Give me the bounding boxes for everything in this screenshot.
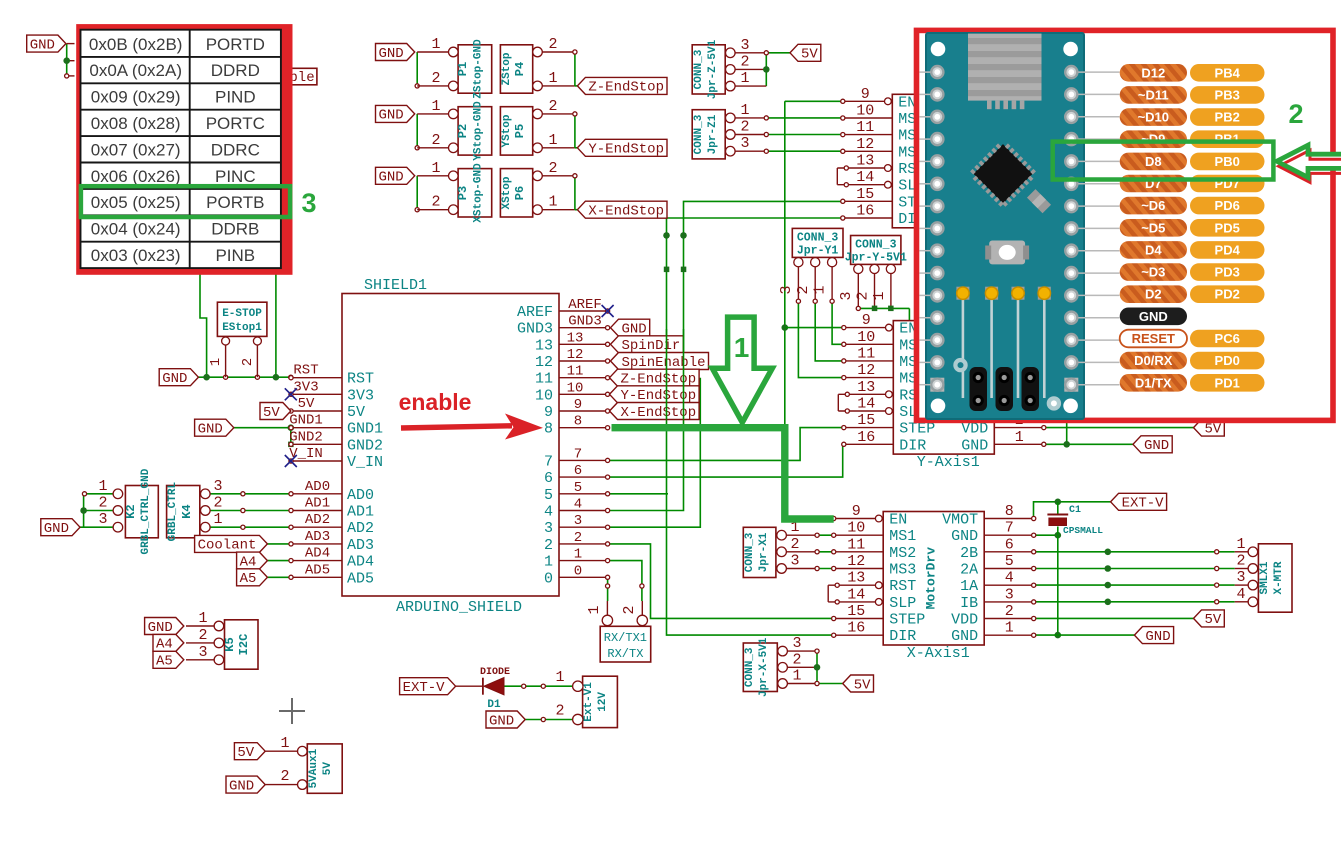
- pin RST SHIELD1 left: [291, 377, 342, 379]
- pin 11 SHIELD1 right: [559, 377, 608, 379]
- svg-text:0x0B (0x2B): 0x0B (0x2B): [89, 35, 183, 54]
- inset pill ~D9: [1120, 130, 1187, 148]
- pin 10 X-Axis1 MS1: [834, 534, 884, 536]
- connector P1: [458, 45, 492, 93]
- inset lead line left: [920, 71, 931, 73]
- svg-text:0x08 (0x28): 0x08 (0x28): [91, 114, 181, 133]
- no-connect 3V3: [285, 388, 297, 400]
- svg-text:6: 6: [1005, 536, 1014, 553]
- pin 11 X-Axis1 MS2: [834, 551, 884, 553]
- svg-text:A5: A5: [156, 654, 173, 670]
- pin 3 SHIELD1 right: [559, 526, 608, 528]
- pin 15 Y-Axis1 STEP: [844, 427, 894, 429]
- inset reset button: [989, 241, 1025, 265]
- pins P-left: [449, 171, 459, 181]
- component SHIELD1 ARDUINO_SHIELD: [342, 294, 559, 597]
- pin 1 Y-Axis1 GND: [994, 443, 1044, 445]
- pin 2 Z-Axis1 VDD: [993, 200, 1043, 202]
- svg-text:X-EndStop: X-EndStop: [588, 204, 664, 220]
- sheet origin cross: [279, 710, 305, 712]
- svg-text:D1/TX: D1/TX: [1135, 375, 1172, 390]
- svg-text:C1: C1: [1069, 505, 1081, 516]
- svg-text:Jpr-Z-5V1: Jpr-Z-5V1: [707, 39, 719, 99]
- global label A5: [237, 569, 268, 586]
- svg-text:IB: IB: [960, 595, 978, 612]
- svg-text:2: 2: [548, 160, 557, 177]
- register table red frame: [76, 24, 292, 275]
- svg-text:5V: 5V: [237, 745, 254, 761]
- svg-text:2: 2: [213, 495, 222, 512]
- svg-text:PD2: PD2: [1215, 287, 1240, 302]
- power flag GND at K5: [145, 618, 184, 635]
- svg-text:2: 2: [740, 53, 749, 70]
- wire K4 pin2 to AD1: [210, 510, 292, 512]
- inset usb connector: [968, 34, 1042, 101]
- wire Jpr-Y1 pin3 to MS3: [797, 266, 799, 301]
- svg-text:16: 16: [856, 203, 874, 220]
- svg-text:11: 11: [847, 536, 865, 553]
- inset icsp headers: [970, 367, 988, 411]
- pin 2 RX/TX1: [637, 615, 647, 625]
- svg-text:PB4: PB4: [1215, 65, 1241, 80]
- inset lead line: [1078, 384, 1119, 386]
- pin 16 Z-Axis1 DIR: [843, 217, 893, 219]
- svg-text:2: 2: [198, 627, 207, 644]
- svg-text:~D6: ~D6: [1141, 198, 1165, 213]
- inset electrolytic caps: [962, 300, 965, 398]
- pins P-right: [533, 171, 543, 181]
- svg-text:GND: GND: [44, 521, 69, 537]
- svg-text:AD5: AD5: [347, 570, 374, 587]
- svg-text:4: 4: [1236, 586, 1245, 603]
- svg-text:PB2: PB2: [1215, 110, 1240, 125]
- svg-text:3: 3: [574, 513, 582, 529]
- svg-text:Y-EndStop: Y-EndStop: [620, 388, 696, 404]
- svg-text:10: 10: [567, 380, 584, 396]
- svg-text:13: 13: [847, 570, 865, 587]
- power flag GND at Ext-V1: [486, 711, 525, 728]
- svg-text:Jpr-Y-5V1: Jpr-Y-5V1: [845, 252, 907, 265]
- inset nano board: [926, 33, 1084, 419]
- svg-text:Jpr-X-5V1: Jpr-X-5V1: [758, 637, 770, 697]
- svg-text:9: 9: [544, 404, 553, 421]
- svg-text:AD4: AD4: [305, 546, 330, 562]
- svg-text:EN: EN: [889, 512, 907, 529]
- svg-text:Jpr-Z1: Jpr-Z1: [707, 114, 719, 154]
- svg-text:0x03 (0x23): 0x03 (0x23): [91, 246, 181, 265]
- wire X-axis VMOT to EXT-V: [1034, 502, 1111, 519]
- svg-text:CONN_3: CONN_3: [693, 49, 705, 89]
- svg-text:8: 8: [1005, 503, 1014, 520]
- global label A4 at K5: [153, 634, 184, 651]
- svg-text:0x05 (0x25): 0x05 (0x25): [91, 193, 181, 212]
- svg-text:~D3: ~D3: [1141, 265, 1165, 280]
- connector CONN_3 Jpr-X-5V1: [743, 643, 777, 692]
- wire Jpr-X1 to X-axis MS pins: [786, 534, 817, 536]
- svg-text:D4: D4: [1145, 242, 1162, 257]
- svg-text:2: 2: [431, 194, 440, 211]
- svg-text:5V: 5V: [1204, 612, 1221, 628]
- svg-text:1: 1: [740, 70, 749, 87]
- wire Jpr-Y1 pin2 to MS2: [814, 266, 816, 301]
- svg-text:EXT-V: EXT-V: [403, 680, 446, 696]
- pin 16 X-Axis1 DIR: [834, 634, 884, 636]
- inset lead line: [1078, 250, 1119, 252]
- svg-text:CPSMALL: CPSMALL: [1063, 525, 1103, 536]
- svg-text:5: 5: [1005, 553, 1014, 570]
- svg-text:E-STOP: E-STOP: [222, 308, 262, 320]
- svg-text:2: 2: [280, 768, 289, 785]
- svg-text:GRBL_CTRL: GRBL_CTRL: [167, 482, 179, 542]
- svg-text:Coolant: Coolant: [198, 538, 257, 554]
- inset pill PD2: [1190, 285, 1265, 303]
- inset pill PD7: [1190, 175, 1265, 193]
- svg-text:1: 1: [555, 669, 564, 686]
- inset lead line left: [920, 227, 931, 229]
- svg-text:7: 7: [574, 446, 582, 462]
- wire redraw verticals over labels: [666, 329, 668, 420]
- pin 4 X-Axis1 1A: [984, 584, 1033, 586]
- svg-text:1: 1: [213, 511, 222, 528]
- pin 9 SHIELD1 right: [559, 410, 608, 412]
- pin 5 X-Axis1 2A: [984, 568, 1033, 570]
- pin 2 X-Axis1 VDD: [984, 618, 1033, 620]
- svg-text:9: 9: [574, 397, 582, 413]
- svg-text:1: 1: [1005, 620, 1014, 637]
- power flag 5V at Y-axis VDD: [1194, 419, 1225, 436]
- inset pill PB0: [1190, 153, 1265, 171]
- pin 7 X-Axis1 GND: [984, 534, 1033, 536]
- pin 5 Y-Axis1 2A: [994, 377, 1044, 379]
- svg-text:PIND: PIND: [215, 88, 256, 107]
- inset pill D8: [1120, 153, 1187, 171]
- connector K5 I2C: [225, 620, 259, 669]
- global label A4: [237, 552, 268, 569]
- wire Coolant to AD3: [267, 543, 291, 545]
- svg-text:DDRB: DDRB: [211, 220, 259, 239]
- svg-text:1: 1: [431, 98, 440, 115]
- wire Y-axis STEP to shield pin7: [608, 428, 843, 461]
- svg-text:1: 1: [548, 194, 557, 211]
- inset lead line: [1078, 205, 1119, 207]
- svg-text:AREF: AREF: [517, 304, 553, 321]
- svg-text:1A: 1A: [960, 578, 978, 595]
- wire shield pin2 to X-axis STEP: [608, 544, 833, 619]
- svg-text:9: 9: [861, 86, 870, 103]
- hier label SpinDir: [611, 336, 684, 353]
- svg-text:ZStop: ZStop: [501, 52, 513, 85]
- svg-text:3: 3: [740, 37, 749, 54]
- svg-text:ARDUINO_SHIELD: ARDUINO_SHIELD: [396, 599, 522, 616]
- svg-text:AD0: AD0: [305, 479, 330, 495]
- svg-text:13: 13: [567, 330, 584, 346]
- inset pill D0/RX: [1120, 352, 1187, 370]
- inset lead line: [1078, 361, 1119, 363]
- power flag 5V at Jpr-X-5V1: [843, 675, 874, 692]
- hier label Z-EndStop: [577, 77, 667, 94]
- pin 15 X-Axis1 STEP: [834, 618, 884, 620]
- power flag GND at Y-axis: [1133, 436, 1172, 453]
- svg-text:DIR: DIR: [889, 628, 916, 645]
- inset lead line: [1078, 116, 1119, 118]
- svg-text:D0/RX: D0/RX: [1134, 353, 1173, 368]
- svg-text:Jpr-X1: Jpr-X1: [758, 532, 770, 572]
- svg-text:1: 1: [574, 547, 582, 563]
- hier label Z-EndStop at shield: [610, 369, 700, 386]
- power flag GND at GND1: [195, 419, 234, 436]
- pin 1 X-Axis1 GND: [984, 634, 1033, 636]
- pin 15 Z-Axis1 STEP: [843, 200, 893, 202]
- svg-text:RST: RST: [889, 578, 916, 595]
- svg-text:SLP: SLP: [889, 595, 916, 612]
- pin 13 Y-Axis1 RST: [886, 391, 893, 398]
- RST-SLP tie Z-Axis1: [836, 168, 838, 185]
- connector CONN_3 Jpr-X1: [743, 527, 776, 577]
- svg-text:12V: 12V: [597, 692, 609, 712]
- svg-text:AD1: AD1: [347, 504, 374, 521]
- svg-text:GND1: GND1: [289, 413, 323, 429]
- inset pill D12: [1120, 64, 1187, 82]
- connector P5 YStop: [500, 107, 532, 155]
- wire Z-axis EN to D8 net: [785, 100, 842, 102]
- svg-text:1: 1: [586, 605, 603, 614]
- pin 7 Y-Axis1 GND: [994, 343, 1044, 345]
- svg-text:1: 1: [734, 332, 750, 363]
- connector K2 GRBL_CTRL_GND: [125, 486, 158, 538]
- no-connect V_IN: [285, 455, 297, 467]
- svg-text:EStop1: EStop1: [222, 322, 262, 334]
- svg-text:1: 1: [812, 285, 829, 294]
- svg-text:ble: ble: [289, 70, 314, 86]
- wire Jpr-Z1 to Z-axis MS pins: [735, 117, 767, 119]
- svg-text:2: 2: [795, 285, 812, 294]
- pin 1 SHIELD1 right: [559, 560, 608, 562]
- svg-text:10: 10: [535, 387, 553, 404]
- pin 11 Y-Axis1 MS2: [844, 360, 894, 362]
- svg-text:GND: GND: [148, 620, 173, 636]
- svg-text:8: 8: [574, 414, 582, 430]
- inset lead line left: [920, 272, 931, 274]
- svg-text:13: 13: [535, 337, 553, 354]
- svg-text:Jpr-Y1: Jpr-Y1: [797, 245, 839, 258]
- svg-text:DIODE: DIODE: [480, 667, 510, 678]
- svg-text:5V: 5V: [322, 762, 334, 776]
- inset corner holes: [931, 42, 946, 57]
- svg-text:11: 11: [535, 371, 553, 388]
- svg-text:D1: D1: [487, 699, 501, 711]
- svg-text:K4: K4: [180, 504, 194, 518]
- svg-text:2: 2: [574, 530, 582, 546]
- inset pill GND: [1120, 308, 1187, 326]
- pin 13 X-Axis1 RST: [875, 582, 882, 589]
- svg-text:1: 1: [208, 358, 224, 366]
- svg-text:10: 10: [857, 329, 875, 346]
- pin 6 Z-Axis1 2B: [993, 134, 1043, 136]
- connector P2: [458, 107, 492, 155]
- pin 2 SHIELD1 right: [559, 543, 608, 545]
- svg-text:PD6: PD6: [1215, 198, 1240, 213]
- annotation big green arrow 1: [712, 317, 772, 422]
- svg-text:RX/TX: RX/TX: [607, 647, 643, 661]
- pin 5 SHIELD1 right: [559, 493, 608, 495]
- svg-text:3: 3: [740, 135, 749, 152]
- pin 7 SHIELD1 right: [559, 459, 608, 461]
- pin 3 Z-Axis1 IB: [993, 184, 1043, 186]
- svg-text:5: 5: [544, 487, 553, 504]
- svg-text:VMOT: VMOT: [942, 512, 978, 529]
- pin 2 EStop1: [253, 337, 261, 345]
- svg-text:PD0: PD0: [1215, 353, 1240, 368]
- junction Jpr-Y-5V1 b: [888, 306, 894, 312]
- svg-text:RX/TX1: RX/TX1: [604, 631, 647, 645]
- svg-text:2B: 2B: [960, 545, 978, 562]
- svg-text:GND1: GND1: [347, 421, 383, 438]
- inset pill ~D10: [1120, 108, 1187, 126]
- pin 0 SHIELD1 right: [559, 576, 608, 578]
- pin 4 Z-Axis1 1A: [993, 167, 1043, 169]
- svg-text:2A: 2A: [960, 562, 978, 579]
- svg-text:A5: A5: [240, 571, 257, 587]
- wire P4 group to endstop labels: [542, 51, 575, 53]
- svg-text:5V: 5V: [347, 404, 365, 421]
- inset lead line: [1078, 294, 1119, 296]
- wire Z-axis STEP: [608, 201, 842, 510]
- junction C1 bottom: [1055, 532, 1062, 539]
- junction dots on vertical buses: [663, 232, 670, 239]
- wire Jpr-X-5V1 bus to 5V: [787, 650, 817, 652]
- svg-text:AREF: AREF: [568, 297, 602, 313]
- wire Jpr-Y-5V1 bus: [857, 273, 859, 308]
- svg-text:6: 6: [574, 463, 582, 479]
- svg-text:3: 3: [838, 291, 855, 300]
- pin AD0 SHIELD1 left: [291, 493, 342, 495]
- inset pill PD5: [1190, 219, 1265, 237]
- power flag GND at K2: [41, 519, 80, 536]
- svg-text:PC6: PC6: [1215, 331, 1240, 346]
- global label EXT-V at diode: [400, 678, 456, 695]
- inset mcu chip: [968, 138, 1039, 209]
- pin 11 Z-Axis1 MS2: [843, 134, 893, 136]
- inset pill ~D5: [1120, 219, 1187, 237]
- pin 1 EStop1: [222, 337, 230, 345]
- wire Y-axis VDD to 5V: [1044, 427, 1194, 429]
- inset pill ~D6: [1120, 197, 1187, 215]
- svg-text:GND: GND: [1144, 438, 1169, 454]
- svg-text:RESET: RESET: [1132, 331, 1175, 346]
- svg-text:0: 0: [574, 563, 582, 579]
- svg-text:PORTD: PORTD: [206, 35, 265, 54]
- svg-text:~D11: ~D11: [1138, 87, 1169, 102]
- svg-text:AD0: AD0: [347, 487, 374, 504]
- inset red frame: [917, 30, 1334, 420]
- svg-text:7: 7: [544, 453, 553, 470]
- svg-text:1: 1: [198, 610, 207, 627]
- junction Y-axis EN: [782, 324, 789, 331]
- svg-text:0x09 (0x29): 0x09 (0x29): [91, 88, 181, 107]
- svg-text:5V: 5V: [263, 405, 280, 421]
- svg-text:GND: GND: [489, 713, 514, 729]
- inset lead line left: [920, 138, 931, 140]
- svg-text:~D9: ~D9: [1141, 132, 1165, 147]
- svg-text:MS1: MS1: [889, 528, 916, 545]
- svg-text:3: 3: [792, 635, 801, 652]
- pin AD5 SHIELD1 left: [291, 576, 342, 578]
- svg-text:GND: GND: [378, 46, 403, 62]
- svg-text:~D10: ~D10: [1138, 110, 1169, 125]
- connector P3: [458, 169, 492, 217]
- partial label ble: [288, 68, 317, 85]
- svg-text:0x07 (0x27): 0x07 (0x27): [91, 140, 181, 159]
- power flag 5V at shield: [260, 403, 291, 420]
- inset lead line: [1078, 71, 1119, 73]
- wire shield pin3 to SpinDir bus: [608, 378, 700, 528]
- component Y-Axis1 MotorDrv: [893, 321, 994, 455]
- inset pill PD0: [1190, 352, 1265, 370]
- inset pill PD4: [1190, 241, 1265, 259]
- pin 3 Y-Axis1 IB: [994, 410, 1044, 412]
- inset pill D7: [1120, 175, 1187, 193]
- svg-text:XStop: XStop: [501, 176, 513, 209]
- power flag GND at X-axis: [1134, 627, 1173, 644]
- svg-text:AD3: AD3: [347, 537, 374, 554]
- inset pill PD6: [1190, 197, 1265, 215]
- connector CONN_3 Jpr-Y-5V1: [851, 236, 901, 265]
- svg-text:CONN_3: CONN_3: [855, 239, 897, 252]
- inset lead line left: [920, 250, 931, 252]
- svg-text:11: 11: [856, 119, 874, 136]
- svg-text:11: 11: [857, 345, 875, 362]
- connector 5VAux1 5V: [307, 744, 342, 793]
- svg-text:DIR: DIR: [899, 437, 926, 454]
- hier label SpinEnable: [611, 353, 709, 370]
- junction RST-2: [273, 374, 280, 381]
- pin AD3 SHIELD1 left: [291, 543, 342, 545]
- svg-text:1: 1: [792, 668, 801, 685]
- svg-text:K5: K5: [223, 637, 237, 651]
- inset lead line left: [920, 183, 931, 185]
- diode D1 DIODE: [482, 678, 484, 695]
- annotation red arrow to pin 8: [401, 426, 512, 428]
- svg-text:D8: D8: [1145, 154, 1162, 169]
- svg-text:2: 2: [790, 536, 799, 553]
- svg-text:GND2: GND2: [347, 437, 383, 454]
- inset lead line left: [920, 116, 931, 118]
- svg-text:2: 2: [431, 70, 440, 87]
- svg-text:GND3: GND3: [517, 321, 553, 338]
- svg-text:2: 2: [555, 703, 564, 720]
- svg-text:1: 1: [98, 478, 107, 495]
- pin 9 Y-Axis1 EN: [886, 324, 893, 331]
- svg-text:8: 8: [544, 421, 553, 438]
- pin 3 X-Axis1 IB: [984, 601, 1033, 603]
- pin 6 X-Axis1 2B: [984, 551, 1033, 553]
- svg-text:RST: RST: [347, 371, 374, 388]
- power flag 5V at Jpr-Z-5V1: [790, 44, 821, 61]
- wire Y-axis GND to GND label: [1044, 443, 1133, 445]
- svg-text:X-Axis1: X-Axis1: [907, 645, 970, 662]
- svg-text:0x04 (0x24): 0x04 (0x24): [91, 220, 181, 239]
- svg-text:2: 2: [621, 605, 638, 614]
- inset small passive: [1027, 189, 1051, 213]
- inset pill D2: [1120, 285, 1187, 303]
- wire Jpr-Y1 pin1 to MS1: [831, 266, 833, 301]
- power flag 5V at X-axis VDD: [1194, 610, 1225, 627]
- inset pill PB4: [1190, 64, 1265, 82]
- pin 14 Z-Axis1 SLP: [885, 181, 892, 188]
- svg-text:MS2: MS2: [889, 545, 916, 562]
- connector P6 XStop: [500, 169, 532, 217]
- svg-text:CONN_3: CONN_3: [797, 232, 839, 245]
